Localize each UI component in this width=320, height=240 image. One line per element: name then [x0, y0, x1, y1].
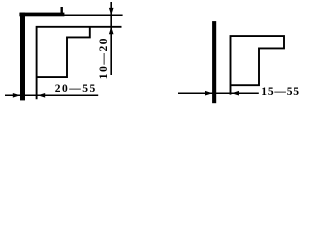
svg-text:10—20: 10—20	[98, 37, 110, 79]
arrowhead down (tip at y15.3)	[109, 8, 114, 15]
arrowhead up (tip at y26.8)	[109, 27, 114, 34]
svg-text:20—55: 20—55	[55, 83, 97, 95]
arrowhead right (tip at wall x212.4)	[205, 91, 212, 96]
left bottom dimension line	[5, 94, 98, 96]
left profile (stepped handrail section)	[37, 27, 122, 100]
extension line from tick (top, y15.3)	[62, 14, 123, 16]
arrowhead left (tip at ext line x37.8)	[38, 93, 45, 98]
left top bar (thick horizontal line)	[19, 13, 64, 17]
arrowhead right (tip at wall x20.2)	[13, 93, 20, 98]
right wall (thick vertical line)	[212, 21, 216, 103]
right bottom dimension line	[178, 92, 259, 94]
arrowhead left (tip at ext line x231.6)	[232, 91, 239, 96]
vertical dimension line x111	[110, 2, 112, 75]
right profile (stepped handrail section)	[231, 36, 285, 95]
tick at bar right end	[61, 7, 63, 13]
left wall (thick vertical line)	[20, 13, 25, 101]
svg-text:15—55: 15—55	[261, 86, 300, 98]
